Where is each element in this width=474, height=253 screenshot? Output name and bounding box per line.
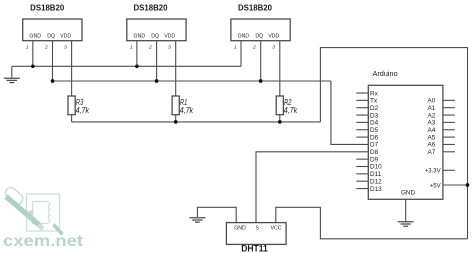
svg-text:D3: D3 [370,112,379,119]
wire U2 pin1 to GND bus [136,41,138,67]
Arduino box [368,85,443,199]
svg-text:GND: GND [134,34,146,40]
svg-text:VDD: VDD [268,34,279,40]
ground symbol left [4,78,20,82]
wire Arduino GND stem [405,199,407,221]
svg-text:D7: D7 [370,142,379,149]
svg-text:D8: D8 [370,149,379,156]
svg-text:D10: D10 [370,164,382,171]
junction U2 GND [135,64,139,68]
svg-text:2: 2 [148,44,152,50]
svg-text:VDD: VDD [60,34,71,40]
svg-text:DS18B20: DS18B20 [30,3,65,12]
svg-text:2: 2 [252,44,256,50]
svg-text:DS18B20: DS18B20 [134,3,169,12]
svg-text:Rx: Rx [370,90,379,97]
ground symbol DHT11 [189,218,205,222]
svg-text:A4: A4 [427,127,435,134]
DHT11 box [226,223,286,245]
junction R1 bus [174,120,178,124]
svg-text:D6: D6 [370,134,379,141]
cxem.net watermark screwdriver [3,185,63,235]
svg-text:D11: D11 [370,171,382,178]
wire U2 pin2 to DQ bus [156,41,158,81]
Arduino pin labels left [370,90,382,192]
svg-text:GND: GND [238,34,250,40]
wire +5V resistor bus [72,121,321,123]
svg-text:+5V: +5V [430,183,441,189]
wire U2 pin3 to R1 [175,41,177,96]
resistor R2 [276,96,283,115]
Arduino pin labels right [425,98,441,190]
wire DQ bus drop to D7 [331,81,368,144]
wire R3 bottom [71,115,73,122]
sensor U2 DS18B20 box [127,19,186,41]
junction R2 bus [278,120,282,124]
svg-text:4,7k: 4,7k [180,105,194,115]
ground symbol Arduino [398,222,414,226]
wire +5V pin stub to right bus [443,184,468,186]
svg-text:D12: D12 [370,178,382,185]
svg-text:cxem.net: cxem.net [3,233,83,250]
sensor U3 DS18B20 box [231,19,290,41]
wire R1 bottom [175,115,177,122]
wire U3 pin3 to R2 [279,41,281,96]
junction U1 DQ [51,79,55,83]
svg-text:VDD: VDD [164,34,175,40]
Arduino left pin stubs [356,93,368,189]
svg-text:DQ: DQ [47,34,55,40]
svg-text:DS18B20: DS18B20 [238,3,273,12]
wire GND bus [12,65,241,67]
svg-text:D13: D13 [370,186,382,193]
svg-text:Tx: Tx [370,98,378,105]
junction U3 DQ [259,79,263,83]
svg-text:4,7k: 4,7k [76,105,90,115]
svg-text:1: 1 [130,44,133,50]
wire DHT11 S to Arduino D8 [256,152,368,223]
svg-text:DQ: DQ [255,34,263,40]
svg-text:A3: A3 [427,120,435,127]
svg-text:GND: GND [29,34,41,40]
svg-text:A5: A5 [427,134,435,141]
cxem.net watermark logo box [27,194,60,231]
wire bottom bus to DHT11 VCC [276,207,468,239]
svg-text:3: 3 [64,44,67,50]
svg-text:2: 2 [44,44,48,50]
resistor R3 [68,96,75,115]
wire ground stem left [11,66,13,78]
svg-text:1: 1 [26,44,29,50]
svg-text:D9: D9 [370,156,379,163]
svg-text:4,7k: 4,7k [284,105,298,115]
wire U1 pin2 to DQ bus [52,41,54,81]
svg-text:3: 3 [272,44,275,50]
svg-text:D4: D4 [370,120,379,127]
sensor U1 DS18B20 box [23,19,82,41]
wire +5V riser and top bus [320,48,467,239]
svg-text:D2: D2 [370,105,379,112]
svg-text:A6: A6 [427,142,435,149]
wire U3 pin2 to DQ bus [260,41,262,81]
wire U3 pin1 to GND bus [240,41,242,67]
svg-text:A0: A0 [427,98,435,105]
junction +5V [466,183,470,187]
svg-text:1: 1 [234,44,237,50]
svg-text:DHT11: DHT11 [241,244,268,253]
svg-text:Arduino: Arduino [373,69,398,78]
wire DHT11 GND to ground [197,207,236,222]
svg-text:+3.3V: +3.3V [425,168,441,174]
wire DQ bus [53,80,331,82]
junction U2 DQ [155,79,159,83]
svg-text:A2: A2 [427,112,435,119]
svg-text:DQ: DQ [151,34,159,40]
junction U1 GND [31,64,35,68]
svg-text:3: 3 [168,44,171,50]
wire U1 pin3 to R3 [71,41,73,96]
Arduino right pin stubs [443,100,455,170]
svg-text:D5: D5 [370,127,379,134]
svg-text:A7: A7 [427,149,435,156]
svg-text:A1: A1 [427,105,435,112]
svg-text:VCC: VCC [271,226,282,232]
wire R2 bottom [279,115,281,122]
svg-text:GND: GND [234,226,246,232]
svg-text:GND: GND [401,189,415,196]
resistor R1 [172,96,179,115]
svg-text:S: S [255,226,259,232]
wire U1 pin1 to GND bus [32,41,34,67]
